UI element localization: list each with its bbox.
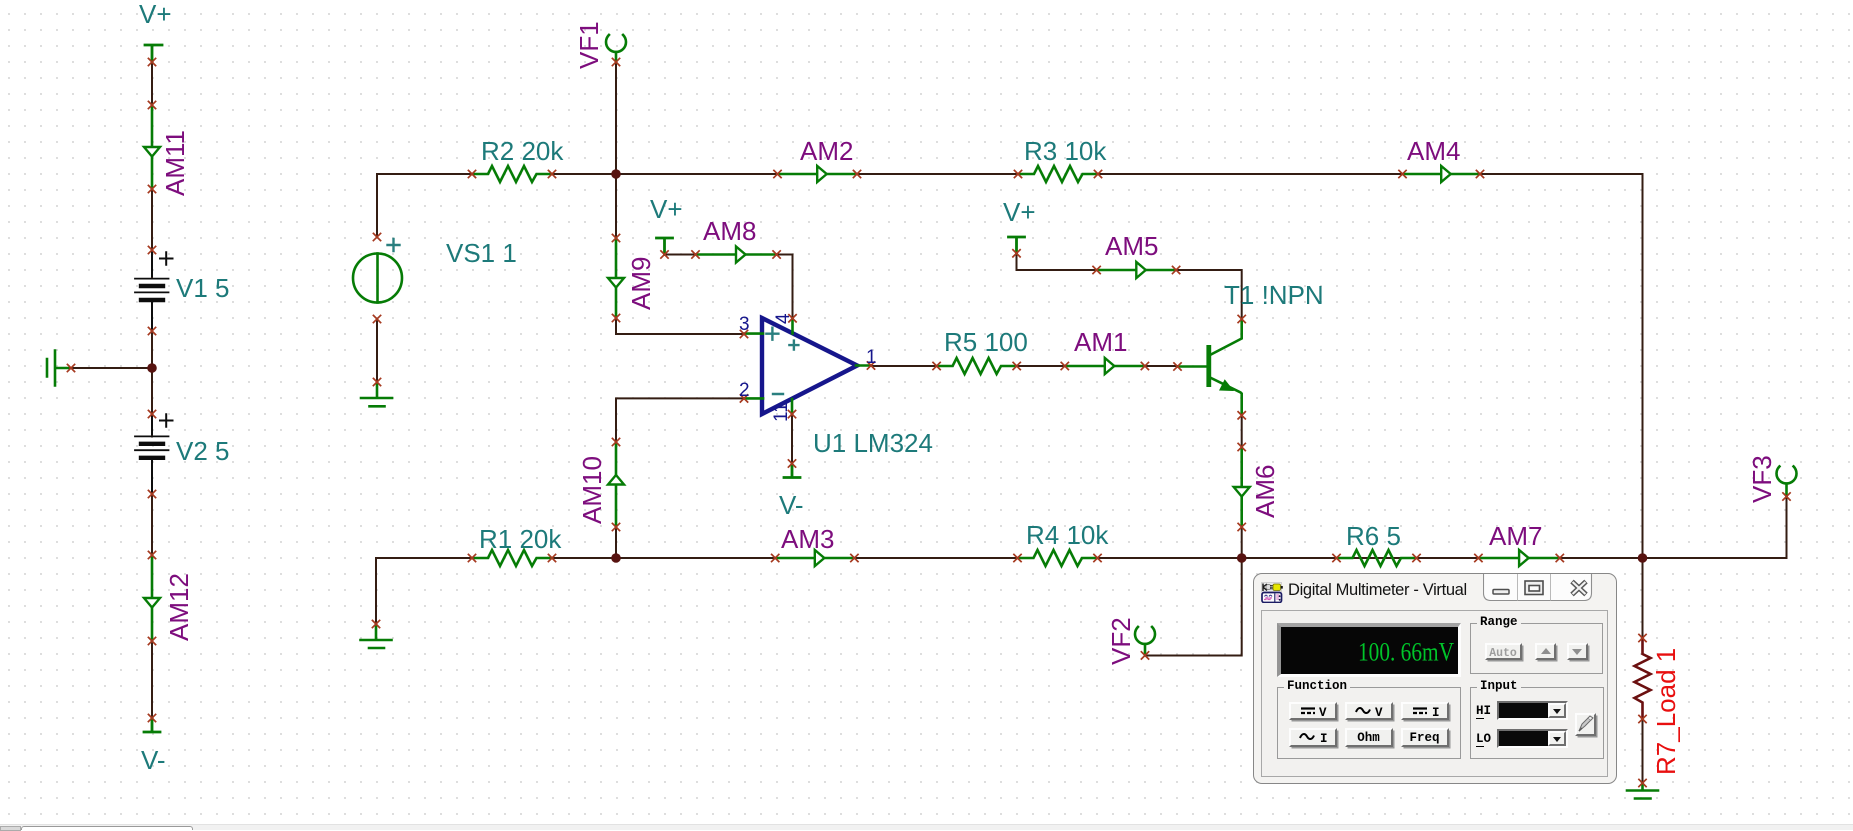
svg-text:T1 !NPN: T1 !NPN: [1224, 280, 1324, 310]
pin x AM9 bottom: [612, 314, 619, 321]
Input group box: [1470, 687, 1604, 759]
pin x ground R1: [372, 620, 379, 627]
label AM7: [1489, 521, 1542, 551]
svg-text:V-: V-: [141, 745, 166, 775]
wire VS1 branch: [376, 174, 378, 382]
svg-text:100. 66mV: 100. 66mV: [1358, 636, 1454, 666]
svg-text:R1 20k: R1 20k: [479, 524, 562, 554]
range down button: [1567, 643, 1588, 661]
transistor T1 emitter lead: [1209, 377, 1242, 415]
transistor T1 collector lead: [1209, 319, 1242, 356]
pin x VF2: [1141, 652, 1148, 659]
VS1 plus mark: [388, 239, 400, 251]
pin x VS1 top: [373, 233, 380, 240]
pin x R7 top: [1639, 634, 1646, 641]
label AM2: [800, 136, 853, 166]
svg-text:VF2: VF2: [1106, 617, 1136, 665]
pin x AM12 bottom: [148, 637, 155, 644]
pin x V- terminal: [148, 714, 155, 721]
svg-text:AM8: AM8: [703, 216, 756, 246]
pin x R5 right: [1013, 362, 1020, 369]
svg-text:AM6: AM6: [1250, 465, 1280, 518]
pin x AM11 bottom: [148, 185, 155, 192]
ammeter AM8: [696, 247, 777, 263]
label V1 value: [176, 273, 230, 303]
label AM3: [781, 524, 834, 554]
node C junction: [611, 553, 621, 563]
svg-text:AM5: AM5: [1105, 231, 1158, 261]
pin x V2 bottom: [148, 490, 155, 497]
label AM4: [1407, 136, 1460, 166]
label R7_Load rotated: [1651, 648, 1681, 775]
pin x R3 left: [1014, 170, 1021, 177]
power terminal V+ above AM8: [657, 238, 673, 255]
svg-text:R2 20k: R2 20k: [481, 136, 564, 166]
ammeter AM2: [778, 166, 858, 182]
pin x R7 bottom: [1639, 715, 1646, 722]
svg-text:V+: V+: [139, 0, 172, 29]
pin number 2: [739, 380, 750, 401]
resistor R6: [1337, 550, 1417, 566]
pin x VS1 ground: [373, 378, 380, 385]
pin x U1 pin11: [788, 411, 795, 418]
svg-text:AM12: AM12: [164, 573, 194, 641]
ammeter AM1: [1065, 358, 1145, 374]
ground left of node A: [47, 351, 68, 386]
pin x R6 left: [1333, 554, 1340, 561]
node B junction: [611, 169, 621, 179]
label V+ AM8: [650, 194, 683, 224]
label HI: [1476, 704, 1491, 718]
pin number 3: [739, 314, 750, 335]
pin x V- opamp: [788, 460, 795, 467]
ammeter AM12: [144, 555, 160, 641]
node E junction: [1638, 553, 1648, 563]
svg-text:R7_Load 1: R7_Load 1: [1651, 648, 1681, 775]
pin x VF3: [1783, 493, 1790, 500]
scrollbar left button: [0, 826, 21, 831]
wire op-amp output row: [871, 365, 1178, 367]
pin x AM2 left: [774, 170, 781, 177]
Auto button (disabled): [1485, 643, 1522, 661]
op-amp U1: [762, 318, 857, 414]
power terminal V- bottom left: [144, 718, 160, 732]
battery V1: [135, 250, 173, 331]
pin x V2 top: [148, 410, 155, 417]
label T1 type: [1224, 280, 1324, 310]
DMM display: [1277, 623, 1461, 677]
wire left supply column: [151, 45, 153, 732]
svg-text:AM3: AM3: [781, 524, 834, 554]
svg-text:AM10: AM10: [577, 456, 607, 524]
dialog icon: [1261, 582, 1283, 603]
pin x U1 pin3: [740, 330, 747, 337]
pin x AM5 right: [1173, 266, 1180, 273]
wire ground to node A: [55, 367, 152, 369]
label AM9 rotated: [626, 257, 656, 310]
pin x AM8 left: [692, 251, 699, 258]
svg-text:VS1 1: VS1 1: [446, 238, 517, 268]
label AM1: [1074, 327, 1127, 357]
pin x AM2 right: [853, 170, 860, 177]
resistor R7_Load (maroon): [1635, 638, 1651, 719]
svg-text:R6 5: R6 5: [1346, 521, 1401, 551]
label AM6 rotated: [1250, 465, 1280, 518]
combo LO: [1497, 729, 1568, 748]
wire V+ terminal to AM8 to pin4: [665, 255, 793, 319]
svg-text:2: 2: [739, 380, 750, 401]
pin number 4 rotated: [773, 313, 794, 324]
node A junction: [147, 363, 157, 373]
terminal VF3: [1777, 466, 1797, 496]
pin x U1 pin2: [740, 395, 747, 402]
pin x AM10 bottom: [612, 523, 619, 530]
svg-text:V+: V+: [1003, 197, 1036, 227]
label AM8: [703, 216, 756, 246]
svg-text:AM4: AM4: [1407, 136, 1460, 166]
svg-text:R4 10k: R4 10k: [1026, 520, 1109, 550]
wire node E to VF3: [1643, 497, 1787, 559]
svg-text:VF1: VF1: [574, 21, 604, 69]
svg-text:11: 11: [771, 402, 792, 422]
ammeter AM3: [775, 550, 854, 566]
label AM10 rotated: [577, 456, 607, 524]
pin x R6 right: [1413, 554, 1420, 561]
ammeter AM5: [1097, 262, 1177, 278]
power terminal V+ above AM5: [1009, 237, 1025, 253]
pin x AM5 left: [1093, 266, 1100, 273]
wire pin2 to AM10 column: [616, 398, 744, 558]
dialog titlebar buttons: [1483, 574, 1593, 601]
pin x ground left: [67, 364, 74, 371]
ammeter AM6: [1234, 447, 1250, 527]
op-amp plus minus marks: [766, 328, 798, 394]
svg-text:I: I: [1320, 732, 1328, 745]
svg-text:V-: V-: [779, 490, 804, 520]
pin x R5 left: [933, 362, 940, 369]
ammeter AM11: [144, 105, 160, 189]
label AM5: [1105, 231, 1158, 261]
dialog inner panel: [1261, 610, 1608, 777]
Function group box: [1277, 687, 1461, 759]
pin x R1 right: [548, 554, 555, 561]
button Ohm: [1345, 728, 1393, 747]
label R2 value: [481, 136, 564, 166]
ammeter AM10 (up): [608, 442, 624, 527]
wire T1 emitter to AM6 to bottom rail: [1241, 415, 1243, 558]
resistor R5: [937, 358, 1017, 374]
pin number 1: [866, 347, 877, 368]
pin x T1 collector: [1238, 315, 1245, 322]
label VF2 rotated: [1106, 617, 1136, 665]
wire right vertical rail down to R7: [1642, 174, 1644, 783]
voltage source VS1: [353, 254, 402, 303]
transistor T1 emitter arrow: [1220, 380, 1233, 390]
probe button: [1575, 713, 1596, 736]
pin x V1 bottom: [148, 327, 155, 334]
pin x V+ top-left: [148, 58, 155, 65]
pin x V+ AM8: [661, 251, 668, 258]
svg-text:AM2: AM2: [800, 136, 853, 166]
svg-text:AM11: AM11: [160, 130, 190, 196]
svg-text:1: 1: [866, 347, 877, 368]
pin x AM12 top: [148, 551, 155, 558]
svg-text:R3 10k: R3 10k: [1024, 136, 1107, 166]
pin x R1 left: [468, 554, 475, 561]
ground below R7_Load: [1627, 783, 1658, 799]
label U1 type: [813, 428, 933, 458]
terminal VF2: [1135, 627, 1155, 655]
svg-text:I: I: [1432, 706, 1440, 719]
pin x R7 ground: [1639, 779, 1646, 786]
svg-text:U1 LM324: U1 LM324: [813, 428, 933, 458]
pin x AM7 right: [1556, 554, 1563, 561]
wire top rail from VS1 to right corner: [377, 173, 1643, 175]
pin x AM10 top: [612, 438, 619, 445]
label AM12 rotated: [164, 573, 194, 641]
resistor R3: [1018, 166, 1098, 182]
wire pin11 to V- terminal: [791, 414, 793, 463]
pin x R4 right: [1094, 554, 1101, 561]
label R5 value: [944, 327, 1028, 357]
pin x AM11 top: [148, 101, 155, 108]
label V2 value: [176, 436, 230, 466]
pin x U1 pin4: [789, 315, 796, 322]
wire VF1 to top rail: [615, 62, 617, 174]
pin x AM9 top: [612, 234, 619, 241]
pin x V1 top: [148, 246, 155, 253]
button AC V: [1345, 702, 1393, 721]
pin x U1 out: [867, 362, 874, 369]
svg-text:V: V: [1319, 706, 1327, 719]
transistor T1 base bar: [1206, 345, 1211, 387]
label R6 value: [1346, 521, 1401, 551]
wire bottom-left ground drop: [375, 558, 377, 624]
pin x T1 base: [1174, 363, 1181, 370]
label V- bottom-left: [141, 745, 166, 775]
svg-text:R5 100: R5 100: [944, 327, 1028, 357]
pin x AM1 right: [1141, 362, 1148, 369]
transistor T1 base lead: [1178, 365, 1207, 368]
pin x AM4 right: [1476, 170, 1483, 177]
multimeter dialog window: [1253, 573, 1617, 784]
pin x T1 emitter: [1238, 412, 1245, 419]
svg-text:AM9: AM9: [626, 257, 656, 310]
wire V+ terminal via AM5 to T1 collector: [1017, 253, 1242, 319]
ground below VS1: [361, 382, 392, 406]
pin x VF1: [612, 58, 619, 65]
ammeter AM9: [608, 238, 624, 318]
button DC V: [1289, 702, 1337, 721]
svg-text:VF3: VF3: [1747, 455, 1777, 503]
resistor R4: [1018, 550, 1098, 566]
pin x AM4 left: [1399, 170, 1406, 177]
battery V2: [135, 414, 173, 494]
pin x AM6 top: [1238, 443, 1245, 450]
pin x R3 right: [1094, 170, 1101, 177]
wire node B down to op-amp pin3: [616, 174, 744, 334]
svg-text:V: V: [1375, 706, 1383, 719]
svg-text:AM1: AM1: [1074, 327, 1127, 357]
svg-text:AM7: AM7: [1489, 521, 1542, 551]
Range group box: [1470, 623, 1603, 674]
svg-text:3: 3: [739, 314, 750, 335]
bottom scrollbar strip: [0, 824, 1853, 830]
button AC I: [1289, 728, 1337, 747]
pin x AM3 left: [772, 554, 779, 561]
pin x AM6 bottom: [1238, 523, 1245, 530]
power terminal V+ top left: [145, 45, 162, 62]
svg-text:V+: V+: [650, 194, 683, 224]
ground below R1 branch: [361, 624, 392, 648]
dialog title text: [1288, 581, 1467, 600]
DMM reading text: [1277, 623, 1458, 674]
pin x R4 left: [1014, 554, 1021, 561]
button DC I: [1401, 702, 1449, 721]
label VS1 value: [446, 238, 517, 268]
node D junction: [1237, 553, 1247, 563]
svg-text:V1 5: V1 5: [176, 273, 230, 303]
label LO: [1476, 732, 1491, 746]
label V- opamp: [779, 490, 804, 520]
label R1 value: [479, 524, 562, 554]
label VF1 rotated: [574, 21, 604, 69]
pin x AM7 left: [1475, 554, 1482, 561]
pin x R2 left: [468, 170, 475, 177]
pin number 11 rotated: [771, 402, 792, 422]
op-amp U1 pin leads: [744, 318, 871, 414]
terminal VF1: [606, 35, 626, 62]
resistor R2: [472, 166, 552, 182]
pin x V+ AM5: [1013, 250, 1020, 257]
ammeter AM4: [1403, 166, 1481, 182]
wire VF2 to node D: [1145, 558, 1242, 656]
svg-text:4: 4: [773, 313, 794, 324]
pin x AM8 right: [773, 251, 780, 258]
ammeter AM7: [1478, 550, 1559, 566]
pin x R2 right: [548, 170, 555, 177]
resistor R1: [472, 550, 552, 566]
scrollbar thumb: [21, 826, 193, 830]
label V+ top-left: [139, 0, 172, 29]
pin x VS1 bottom: [373, 315, 380, 322]
range up button: [1535, 643, 1556, 661]
combo HI: [1497, 701, 1568, 720]
power terminal V- below op-amp: [784, 464, 800, 478]
wire bottom rail: [376, 557, 1643, 559]
svg-text:V2 5: V2 5: [176, 436, 230, 466]
label R3 value: [1024, 136, 1107, 166]
button Freq: [1401, 728, 1449, 747]
pin x AM1 left: [1061, 362, 1068, 369]
label AM11 rotated: [160, 130, 190, 196]
label VF3 rotated: [1747, 455, 1777, 503]
label V+ AM5: [1003, 197, 1036, 227]
label R4 value: [1026, 520, 1109, 550]
pin x AM3 right: [851, 554, 858, 561]
